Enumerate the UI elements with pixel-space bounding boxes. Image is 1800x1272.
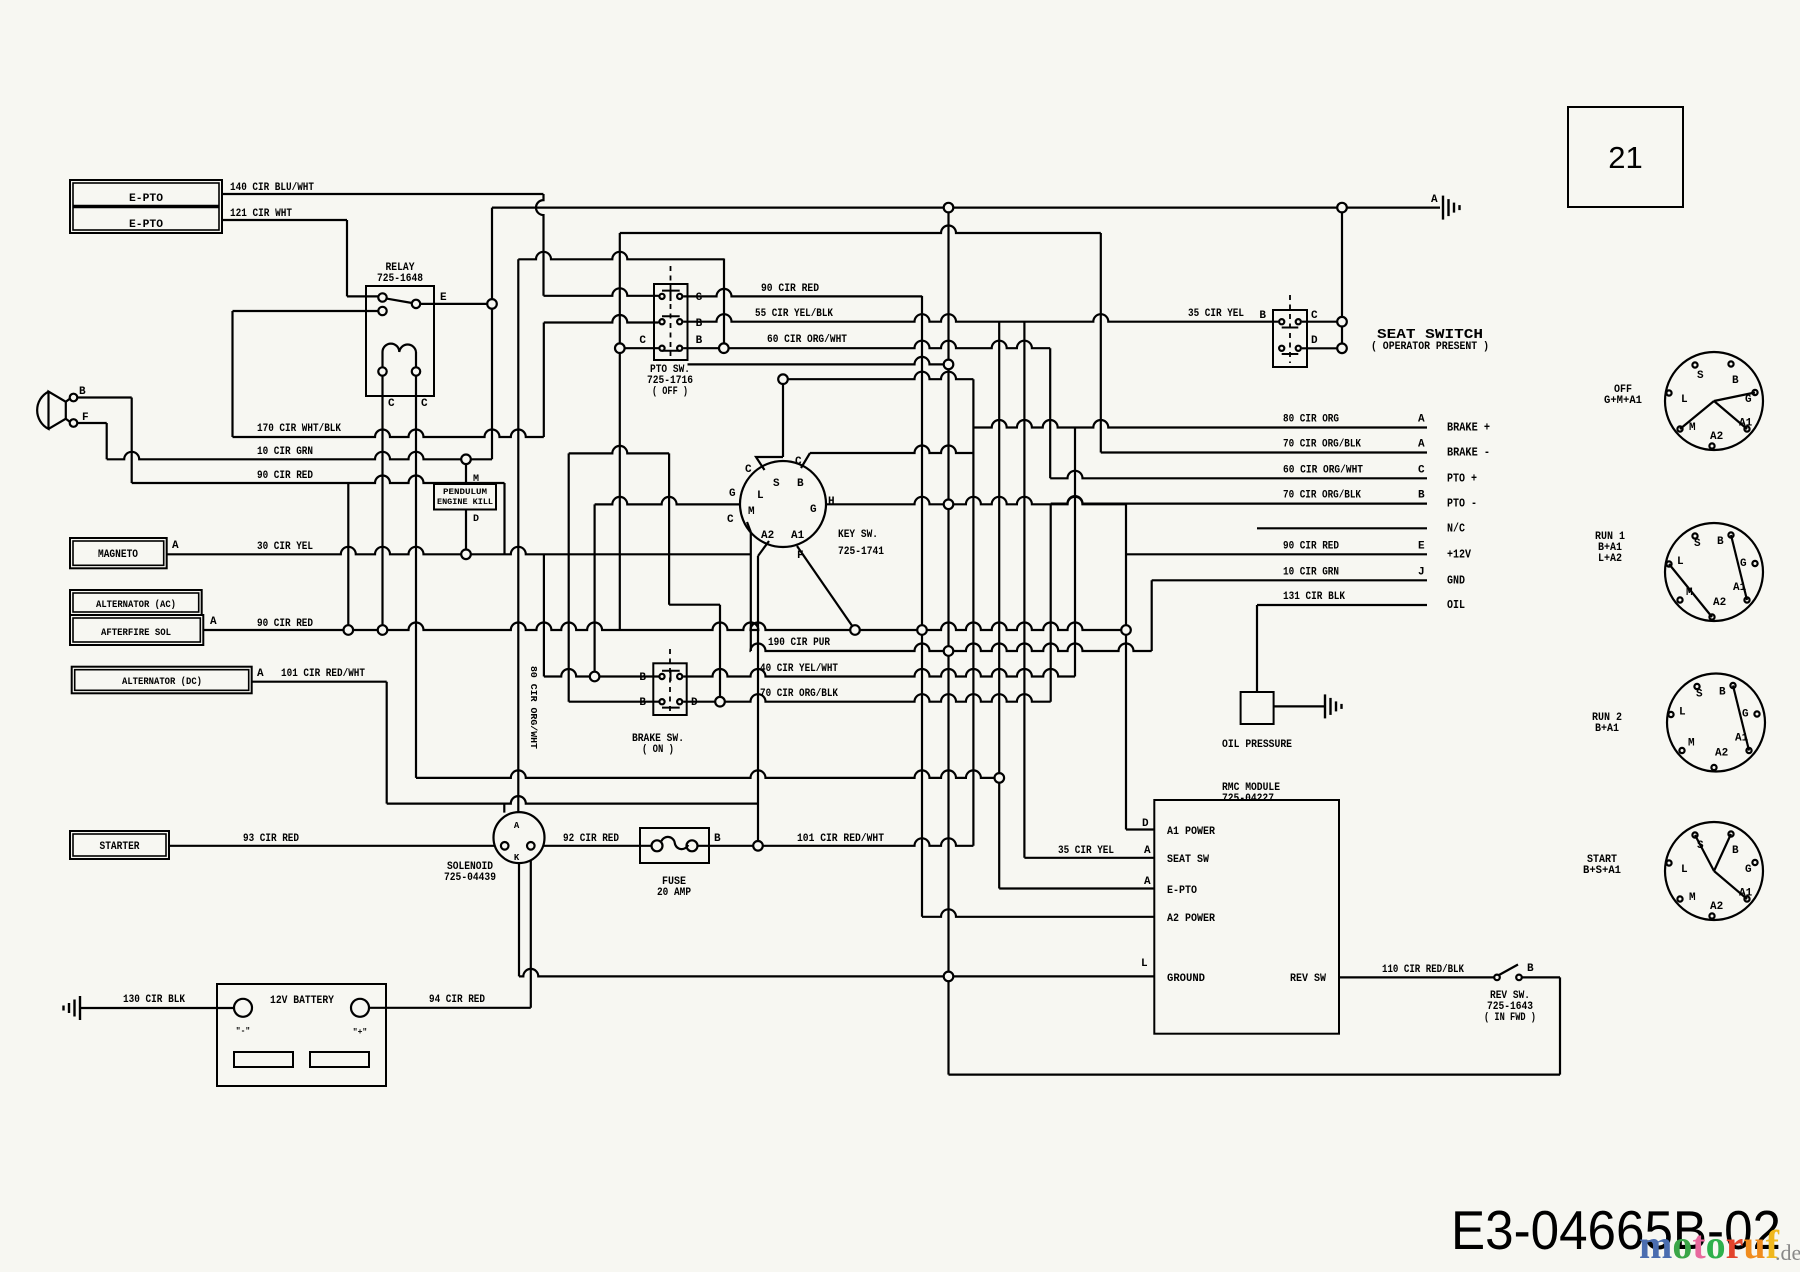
wire ptoGrow xyxy=(544,288,659,296)
svg-text:B: B xyxy=(714,833,721,845)
svg-text:L: L xyxy=(1681,394,1688,406)
wire v_492 xyxy=(491,208,493,460)
svg-text:STARTER: STARTER xyxy=(100,841,140,853)
svg-text:A1: A1 xyxy=(791,530,805,542)
wire keyMrow xyxy=(595,497,740,505)
wire v_724 xyxy=(723,259,725,349)
wire v_keyM xyxy=(593,504,595,676)
node junction at 948,504 xyxy=(944,500,954,510)
svg-text:140 CIR BLU/WHT: 140 CIR BLU/WHT xyxy=(230,182,314,194)
wire v_618 xyxy=(619,233,621,630)
wire v_1151 xyxy=(1151,580,1153,651)
alternator AC / afterfire sol xyxy=(70,590,202,615)
svg-text:M: M xyxy=(1689,422,1696,434)
battery 12V xyxy=(217,984,386,1086)
wire v_hlB xyxy=(131,398,133,484)
svg-text:BRAKE +: BRAKE + xyxy=(1447,422,1490,435)
svg-text:L+A2: L+A2 xyxy=(1598,553,1622,565)
wire 170row xyxy=(233,430,544,437)
svg-text:80 CIR ORG/WHT: 80 CIR ORG/WHT xyxy=(528,666,539,749)
wire v_669 xyxy=(668,453,670,604)
wire 140row xyxy=(222,193,543,195)
svg-text:G: G xyxy=(729,488,736,500)
node junction at 999,778 xyxy=(995,773,1005,783)
svg-text:J: J xyxy=(1418,566,1425,578)
wire relG xyxy=(347,295,378,297)
node junction at 466,554 xyxy=(461,550,471,560)
wire 90Rrow xyxy=(203,623,1126,630)
svg-text:G: G xyxy=(1745,864,1752,876)
wire bridge1 xyxy=(569,446,669,453)
svg-text:OIL PRESSURE: OIL PRESSURE xyxy=(1222,739,1292,751)
node junction at 948,208 xyxy=(944,203,954,213)
svg-text:B: B xyxy=(696,318,703,330)
wire v_948 xyxy=(947,208,949,1075)
wire grdRow xyxy=(519,969,1154,976)
svg-text:E-PTO: E-PTO xyxy=(129,219,163,231)
wire 233row xyxy=(620,226,1101,234)
node junction at 1342,322 xyxy=(1337,317,1347,327)
wire v_pendM xyxy=(465,459,467,484)
wire revRow1 xyxy=(1339,976,1495,978)
node junction at 492,304 xyxy=(487,299,497,309)
wire oilgnd xyxy=(1274,705,1325,707)
wire v_coil2 xyxy=(415,374,417,778)
wire v_solA xyxy=(503,804,505,813)
wire ptoMin xyxy=(1051,496,1427,504)
svg-text:PENDULUM: PENDULUM xyxy=(443,487,487,497)
svg-text:725-1741: 725-1741 xyxy=(838,546,884,558)
svg-text:G: G xyxy=(810,504,817,516)
svg-text:C: C xyxy=(727,514,734,526)
wire v_coil1 xyxy=(381,374,383,630)
wire 130row xyxy=(80,1007,234,1009)
relay K1 725-1648 xyxy=(366,286,434,396)
wire 30row xyxy=(167,547,751,554)
wire 55row xyxy=(683,314,1278,321)
svg-text:S: S xyxy=(773,478,780,490)
wire rowB xyxy=(387,796,759,804)
svg-text:B: B xyxy=(696,335,703,347)
svg-text:B: B xyxy=(639,672,646,684)
svg-text:A: A xyxy=(514,821,520,831)
wire gndRow2 xyxy=(1152,579,1427,581)
wire revRet xyxy=(949,1073,1561,1075)
wire erow xyxy=(419,303,492,305)
svg-text:C: C xyxy=(1418,464,1425,476)
wire v_121 xyxy=(346,220,348,296)
wire v_140 xyxy=(536,194,544,296)
svg-text:"-": "-" xyxy=(236,1027,250,1036)
node junction at 948,364 xyxy=(944,360,954,370)
svg-text:H: H xyxy=(828,496,835,508)
svg-text:B: B xyxy=(1719,687,1726,699)
svg-text:C: C xyxy=(421,398,428,410)
node junction at 720,702 xyxy=(715,697,725,707)
svg-text:21: 21 xyxy=(1608,140,1642,175)
svg-text:80 CIR ORG: 80 CIR ORG xyxy=(1283,414,1339,426)
wire 12vRow xyxy=(1126,553,1427,555)
switch PTO 725-1718 xyxy=(654,284,688,360)
wire v_altdc xyxy=(386,682,388,804)
wire v_973 xyxy=(972,379,974,846)
svg-text:12V BATTERY: 12V BATTERY xyxy=(270,995,334,1007)
wire v_1100 xyxy=(1100,233,1102,453)
dial RUN1 xyxy=(1665,523,1763,621)
wire v_seat xyxy=(1341,208,1343,349)
node junction at 595,676 xyxy=(590,672,600,682)
svg-text:A: A xyxy=(1418,439,1425,451)
svg-text:E: E xyxy=(1418,540,1425,552)
svg-text:90 CIR RED: 90 CIR RED xyxy=(257,470,313,482)
svg-text:PTO -: PTO - xyxy=(1447,498,1477,511)
node junction at 948,651 xyxy=(944,646,954,656)
magneto xyxy=(70,538,167,568)
wire 348rowR xyxy=(683,341,1050,349)
wire v_504 xyxy=(503,483,505,554)
svg-text:E-PTO: E-PTO xyxy=(129,193,163,205)
svg-text:10 CIR GRN: 10 CIR GRN xyxy=(257,446,313,458)
svg-text:C: C xyxy=(388,398,395,410)
wire v_hlF xyxy=(106,423,108,459)
svg-text:E: E xyxy=(440,292,447,304)
svg-text:S: S xyxy=(1694,538,1701,550)
svg-text:10 CIR GRN: 10 CIR GRN xyxy=(1283,566,1339,578)
svg-text:A2: A2 xyxy=(1710,901,1723,913)
svg-text:A: A xyxy=(1418,414,1425,426)
wire v_1075 xyxy=(1074,428,1076,677)
svg-text:725-04227: 725-04227 xyxy=(1222,793,1274,805)
svg-text:B: B xyxy=(1418,490,1425,502)
svg-text:A2: A2 xyxy=(1713,597,1726,609)
wire v_pendD xyxy=(465,510,467,555)
svg-text:AFTERFIRE SOL: AFTERFIRE SOL xyxy=(101,628,171,639)
wire 101row xyxy=(698,838,974,845)
wire revRow2 xyxy=(1522,976,1561,978)
svg-text:170 CIR WHT/BLK: 170 CIR WHT/BLK xyxy=(257,423,341,435)
svg-text:60 CIR ORG/WHT: 60 CIR ORG/WHT xyxy=(1283,464,1363,476)
wire gndrow xyxy=(492,207,1440,209)
wire 348rowL xyxy=(620,347,659,349)
svg-text:A2: A2 xyxy=(1710,431,1723,443)
svg-text:( OFF ): ( OFF ) xyxy=(652,386,688,398)
wire v_999 xyxy=(998,322,1000,889)
svg-text:( OPERATOR PRESENT ): ( OPERATOR PRESENT ) xyxy=(1371,341,1489,353)
svg-text:ALTERNATOR (DC): ALTERNATOR (DC) xyxy=(122,676,202,688)
wire oilRow xyxy=(1257,604,1427,606)
node junction at 922,630 xyxy=(917,625,927,635)
svg-text:94 CIR RED: 94 CIR RED xyxy=(429,994,485,1006)
svg-text:D: D xyxy=(691,697,698,709)
svg-text:93 CIR RED: 93 CIR RED xyxy=(243,833,299,845)
wire 92row xyxy=(535,845,652,847)
svg-text:B+S+A1: B+S+A1 xyxy=(1583,865,1621,877)
svg-text:KEY SW.: KEY SW. xyxy=(838,529,878,541)
wire 70rowR xyxy=(683,694,1050,702)
svg-text:SEAT SW: SEAT SW xyxy=(1167,854,1209,866)
ref box 21 xyxy=(1568,107,1683,207)
wire keyCr xyxy=(810,446,973,454)
switch REV 725-1643 xyxy=(1499,965,1518,976)
svg-text:+12V: +12V xyxy=(1447,548,1471,561)
wire a2Row xyxy=(922,909,1154,916)
svg-text:110 CIR RED/BLK: 110 CIR RED/BLK xyxy=(1382,964,1464,976)
node junction at 783,379 xyxy=(778,374,788,384)
wire eptoRow xyxy=(999,887,1154,889)
svg-text:L: L xyxy=(757,490,764,502)
svg-text:G: G xyxy=(1742,709,1749,721)
wire ptoGrow2 xyxy=(683,289,922,297)
svg-text:B: B xyxy=(1732,375,1739,387)
svg-text:OIL: OIL xyxy=(1447,599,1465,612)
wire 379row xyxy=(783,372,973,379)
svg-text:130 CIR BLK: 130 CIR BLK xyxy=(123,994,185,1006)
svg-text:F: F xyxy=(797,550,804,562)
svg-text:( ON ): ( ON ) xyxy=(642,744,674,756)
svg-text:B+A1: B+A1 xyxy=(1595,723,1619,735)
svg-text:"+": "+" xyxy=(353,1028,367,1037)
svg-text:C: C xyxy=(1311,310,1318,322)
svg-text:D: D xyxy=(473,514,479,525)
svg-text:F: F xyxy=(82,412,89,424)
svg-text:35 CIR YEL: 35 CIR YEL xyxy=(1058,845,1114,857)
wire 93row xyxy=(169,845,501,847)
svg-text:A: A xyxy=(1144,845,1151,857)
svg-text:101 CIR RED/WHT: 101 CIR RED/WHT xyxy=(281,668,365,680)
svg-text:A: A xyxy=(1431,194,1438,206)
svg-text:M: M xyxy=(1689,892,1696,904)
svg-text:121 CIR WHT: 121 CIR WHT xyxy=(230,208,292,220)
svg-text:L: L xyxy=(1677,556,1684,568)
wire v_190 xyxy=(750,532,752,651)
wire seatRow xyxy=(1024,857,1154,859)
wire 10row xyxy=(107,452,492,459)
dial OFF xyxy=(1665,352,1763,450)
wire a1row xyxy=(1126,828,1154,830)
svg-text:S: S xyxy=(1697,370,1704,382)
wire 70rowL xyxy=(569,701,659,703)
wire v_1050a xyxy=(1049,348,1051,478)
node junction at 620,348 xyxy=(615,343,625,353)
svg-text:GROUND: GROUND xyxy=(1167,973,1205,985)
svg-text:A2: A2 xyxy=(1715,748,1728,760)
ground battery xyxy=(79,996,81,1020)
svg-text:B: B xyxy=(639,697,646,709)
svg-text:A: A xyxy=(1144,876,1151,888)
svg-text:C: C xyxy=(639,335,646,347)
svg-text:M: M xyxy=(1688,738,1695,750)
ground oil pressure xyxy=(1324,694,1326,718)
svg-text:( IN FWD ): ( IN FWD ) xyxy=(1484,1012,1536,1024)
node junction at 1342,348 xyxy=(1337,344,1347,354)
node junction at 466,459 xyxy=(461,455,471,465)
svg-text:G: G xyxy=(696,292,703,304)
dial RUN2 xyxy=(1667,674,1765,772)
node junction at 724,348 xyxy=(719,343,729,353)
svg-text:B: B xyxy=(1732,845,1739,857)
wire v_relC2 xyxy=(231,311,233,437)
svg-text:M: M xyxy=(748,506,755,518)
node junction at 1126,630 xyxy=(1121,625,1131,635)
svg-text:D: D xyxy=(1311,335,1318,347)
svg-text:92 CIR RED: 92 CIR RED xyxy=(563,833,619,845)
svg-text:C: C xyxy=(795,456,802,468)
svg-text:L: L xyxy=(1141,958,1148,970)
wire 55rowL xyxy=(544,315,659,322)
switch SEAT xyxy=(1273,310,1307,367)
svg-text:BRAKE -: BRAKE - xyxy=(1447,447,1490,460)
svg-text:ALTERNATOR (AC): ALTERNATOR (AC) xyxy=(96,599,176,611)
wire 40rowR xyxy=(683,669,1075,676)
node junction at 948,976 xyxy=(944,972,954,982)
svg-text:35 CIR YEL: 35 CIR YEL xyxy=(1188,308,1244,320)
relay coil xyxy=(383,344,417,352)
wire v_brkB xyxy=(568,453,570,701)
node junction at 758,846 xyxy=(753,841,763,851)
svg-text:A1 POWER: A1 POWER xyxy=(1167,826,1215,838)
svg-text:A: A xyxy=(172,540,179,552)
svg-text:GND: GND xyxy=(1447,574,1465,587)
wire 258row xyxy=(518,252,724,259)
svg-text:A: A xyxy=(257,668,264,680)
svg-text:90 CIR RED: 90 CIR RED xyxy=(1283,540,1339,552)
svg-text:70 CIR ORG/BLK: 70 CIR ORG/BLK xyxy=(1283,490,1361,502)
svg-text:30 CIR YEL: 30 CIR YEL xyxy=(257,541,313,553)
wire v_348 xyxy=(347,483,349,630)
svg-text:40 CIR YEL/WHT: 40 CIR YEL/WHT xyxy=(760,663,838,675)
svg-text:A2 POWER: A2 POWER xyxy=(1167,913,1215,925)
svg-text:90 CIR RED: 90 CIR RED xyxy=(257,618,313,630)
headlight lamp xyxy=(37,392,66,429)
wire 40rowL xyxy=(544,669,659,676)
svg-text:L: L xyxy=(1681,864,1688,876)
module pendulum engine kill xyxy=(434,484,496,510)
wire keyHrow xyxy=(826,497,1126,504)
svg-text:725-1648: 725-1648 xyxy=(377,273,423,285)
module RMC 725-04227 xyxy=(1154,800,1339,1034)
switch KEY 725-1741 xyxy=(740,461,826,547)
key stubs xyxy=(756,457,783,470)
wire v_oil xyxy=(1256,605,1258,692)
svg-text:70 CIR ORG/BLK: 70 CIR ORG/BLK xyxy=(760,688,838,700)
wire rowA xyxy=(416,770,999,777)
svg-text:70 CIR ORG/BLK: 70 CIR ORG/BLK xyxy=(1283,439,1361,451)
svg-text:motoruf: motoruf xyxy=(1639,1222,1780,1267)
svg-text:B: B xyxy=(79,386,86,398)
wire v_a2key xyxy=(757,556,759,846)
svg-text:C: C xyxy=(745,464,752,476)
wire v_1126 xyxy=(1125,504,1127,829)
svg-text:ENGINE KILL: ENGINE KILL xyxy=(437,497,493,507)
wire v_94 xyxy=(530,846,532,1008)
svg-text:G: G xyxy=(1745,394,1752,406)
alternator DC xyxy=(72,667,252,694)
node junction at 1342,208 xyxy=(1337,203,1347,213)
connector E-PTO (two plugs) xyxy=(70,180,222,233)
starter xyxy=(70,831,169,859)
wire ptoPlus xyxy=(1050,471,1427,478)
wire v_solK xyxy=(518,863,520,976)
svg-text:20 AMP: 20 AMP xyxy=(657,887,691,899)
svg-text:PTO +: PTO + xyxy=(1447,472,1477,485)
svg-text:M: M xyxy=(473,474,479,485)
svg-text:K: K xyxy=(514,853,520,863)
svg-text:S: S xyxy=(1696,689,1703,701)
wire v_1024 xyxy=(1023,322,1025,858)
svg-text:190 CIR PUR: 190 CIR PUR xyxy=(768,637,830,649)
dial START xyxy=(1665,822,1763,920)
svg-text:N/C: N/C xyxy=(1447,522,1465,535)
relay switch contacts xyxy=(387,299,413,303)
svg-text:G+M+A1: G+M+A1 xyxy=(1604,395,1642,407)
wire 190row xyxy=(751,644,1152,652)
wire 90Lrow xyxy=(132,476,505,484)
svg-text:B: B xyxy=(797,478,804,490)
wire bridge2 xyxy=(669,604,720,606)
wire ncRow xyxy=(1257,527,1427,529)
node junction at 382,630 xyxy=(378,625,388,635)
wire v_keyC xyxy=(782,379,784,457)
svg-text:90 CIR RED: 90 CIR RED xyxy=(761,283,819,295)
svg-text:131 CIR BLK: 131 CIR BLK xyxy=(1283,591,1345,603)
fuse 20A xyxy=(640,828,709,863)
svg-text:MAGNETO: MAGNETO xyxy=(98,549,138,561)
svg-text:A: A xyxy=(210,616,217,628)
svg-text:55 CIR YEL/BLK: 55 CIR YEL/BLK xyxy=(755,308,833,320)
wire brkMin xyxy=(1101,451,1427,453)
svg-text:B: B xyxy=(1259,310,1266,322)
svg-text:60 CIR ORG/WHT: 60 CIR ORG/WHT xyxy=(767,334,847,346)
solenoid 725-04439 xyxy=(494,812,545,863)
svg-text:B: B xyxy=(1527,963,1534,975)
svg-text:A2: A2 xyxy=(761,530,774,542)
wire 101dc xyxy=(252,681,387,683)
node junction at 855,630 xyxy=(850,625,860,635)
wire v_720 xyxy=(719,605,721,702)
svg-text:L: L xyxy=(1679,707,1686,719)
svg-text:D: D xyxy=(1142,818,1149,830)
wire v_518 xyxy=(517,259,519,812)
svg-text:725-04439: 725-04439 xyxy=(444,872,496,884)
svg-text:REV SW: REV SW xyxy=(1290,973,1326,985)
switch oil pressure xyxy=(1241,692,1274,724)
wire v_1050b xyxy=(1050,504,1052,702)
switch BRAKE xyxy=(653,663,686,715)
wire 121row xyxy=(222,219,347,221)
wire c2row xyxy=(233,310,379,312)
svg-text:101 CIR RED/WHT: 101 CIR RED/WHT xyxy=(797,833,884,845)
svg-text:B: B xyxy=(1717,536,1724,548)
wire v_rev xyxy=(1559,977,1561,1074)
wire v_55L xyxy=(543,323,545,438)
wire brkPlus xyxy=(973,420,1427,427)
node junction at 348,630 xyxy=(344,625,354,635)
svg-text:.de: .de xyxy=(1775,1240,1800,1265)
wire v_922 xyxy=(921,296,923,917)
wire 94row xyxy=(369,1007,531,1009)
svg-text:E-PTO: E-PTO xyxy=(1167,885,1197,897)
wire v_30drop xyxy=(543,554,545,676)
svg-text:G: G xyxy=(1740,558,1747,570)
ground top right xyxy=(1442,196,1444,220)
wire 364row xyxy=(688,357,949,364)
